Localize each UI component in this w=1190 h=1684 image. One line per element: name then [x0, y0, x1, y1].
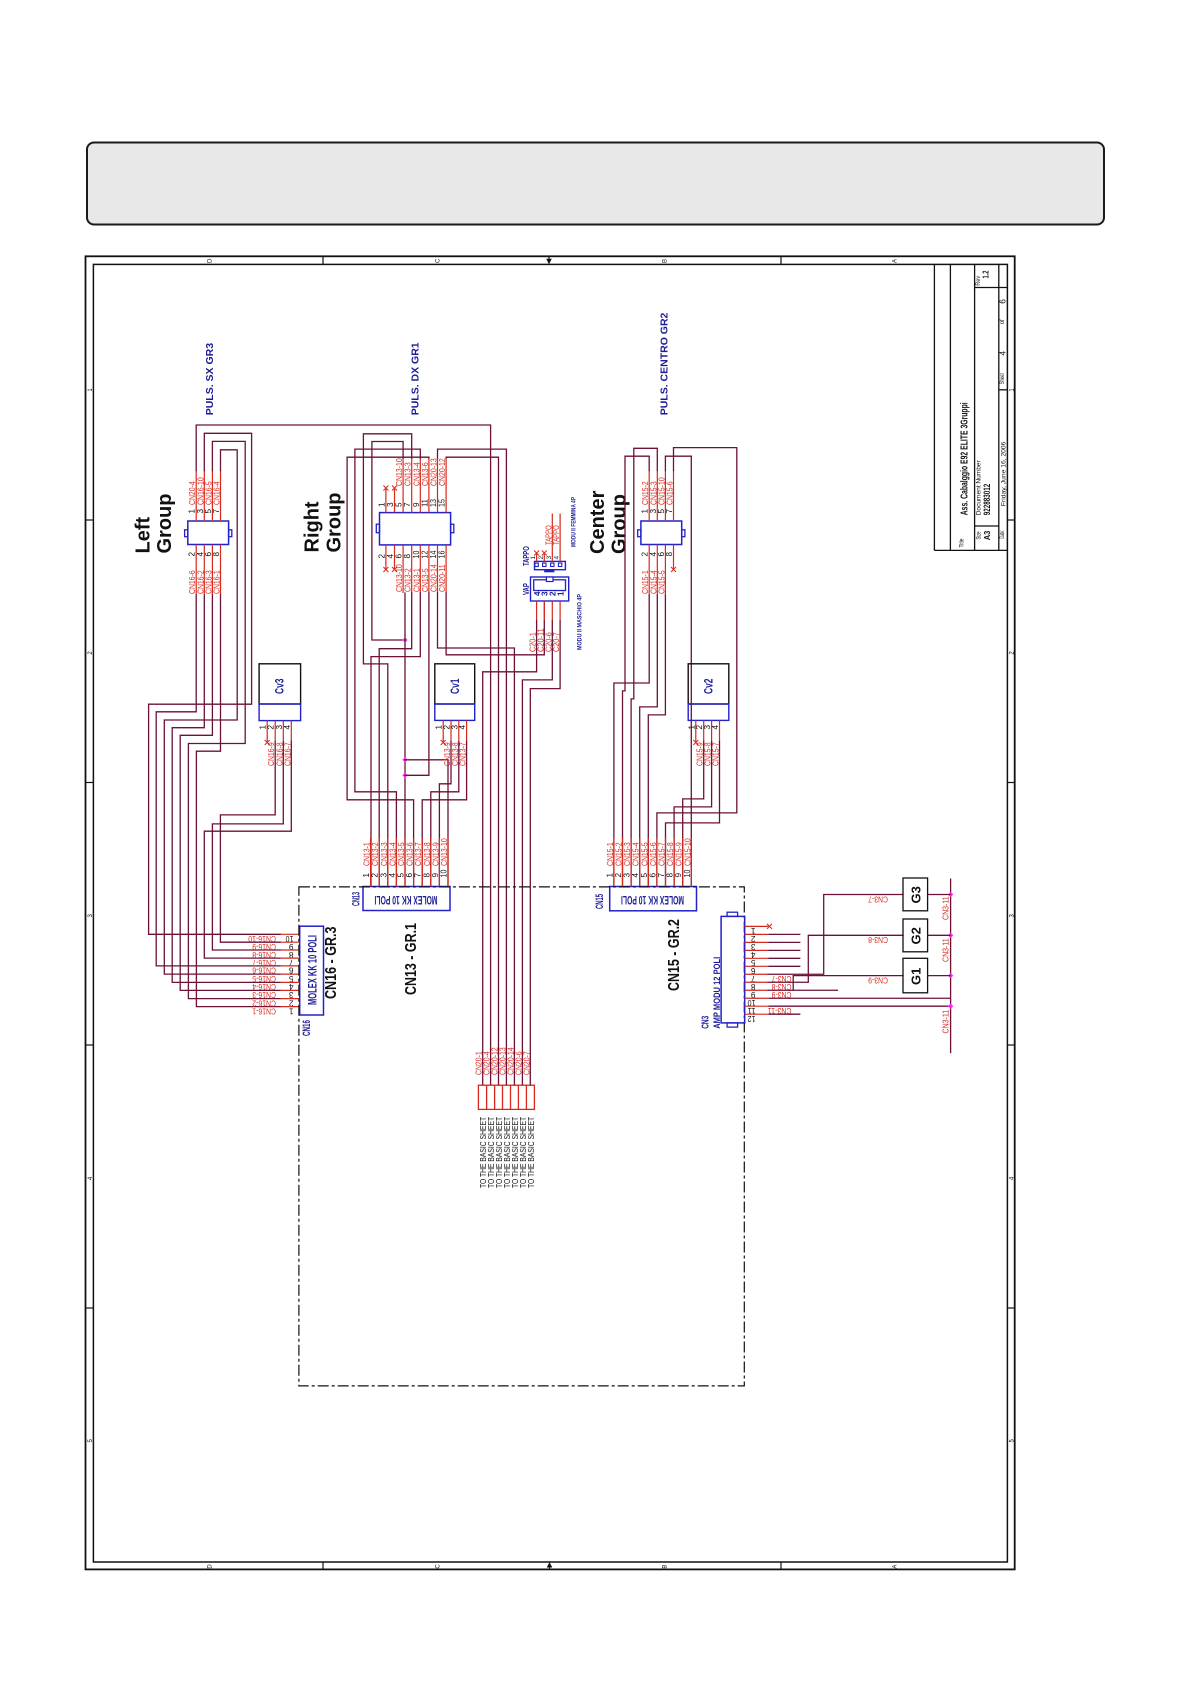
CN15 pin 6 stub [656, 838, 658, 887]
Cv1 pin 2 stub [450, 720, 452, 741]
frame zone tick left [86, 1044, 94, 1046]
CN3 pin 9 stub [745, 989, 769, 991]
center pin8 NC X [671, 567, 676, 572]
Cv2 pin1 no-connect X [693, 740, 698, 745]
frame zone tick right [1007, 1307, 1014, 1309]
svg-text:Ass. Cabalggio E92 ELITE 3Gru: Ass. Cabalggio E92 ELITE 3Gruppi [959, 402, 971, 515]
wire net CN13-8 (Cv1 pin3) [431, 742, 459, 887]
wire G1 right [928, 975, 951, 977]
Cv3 pin 3 stub [282, 721, 284, 742]
CN3 pin 4 stub [745, 949, 769, 951]
connector CN16 MOLEX KK 10 POLI [300, 926, 324, 1015]
svg-text:CN20-7: CN20-7 [522, 1051, 531, 1075]
connector VAP MODU II MASCHIO 4P [531, 577, 569, 601]
CN16 pin 6 stub [280, 965, 299, 967]
connector Left Group 8-pin [188, 521, 229, 545]
CN3 pin 2 stub [745, 933, 769, 935]
svg-text:CN16-4: CN16-4 [213, 481, 222, 505]
svg-text:1: 1 [530, 556, 537, 560]
frame zone tick bottom [322, 1562, 324, 1569]
left conn pin 4 stub [203, 545, 205, 596]
VAP pin 1 stub [559, 601, 561, 621]
CN13 pin 8 stub [430, 838, 432, 887]
svg-text:A: A [893, 259, 899, 263]
wire net CN13-7 (Cv1 pin4) [422, 742, 466, 887]
wire net CN20-7 (VAP pin1 to bundle) [530, 621, 560, 1086]
TAPPO pin2 NC X [542, 551, 547, 556]
svg-text:CN16-3: CN16-3 [252, 990, 276, 999]
connector Center Group 8-pin [641, 521, 682, 545]
Cv1 pin 1 stub [442, 720, 444, 741]
svg-text:CN16-9: CN16-9 [252, 942, 276, 951]
wire CN3 pin 2 [768, 933, 800, 935]
svg-text:CN16-2: CN16-2 [252, 998, 276, 1007]
Cv2 pin 1 stub [695, 720, 697, 741]
CN15 pin 9 stub [682, 838, 684, 887]
svg-text:8: 8 [212, 552, 221, 557]
frame zone tick right [1007, 1044, 1014, 1046]
svg-text:CN3-8: CN3-8 [868, 935, 888, 944]
svg-text:CN3-9: CN3-9 [868, 975, 888, 984]
wire net CN15-2 (center pin1) [623, 456, 650, 886]
wire net CN3-8 (pin8 to G2) [768, 935, 903, 982]
frame zone tick left [86, 1307, 94, 1309]
svg-text:6: 6 [998, 299, 1007, 304]
CN15 pin 4 stub [639, 838, 641, 887]
svg-text:MODU II FEMMINA 4P: MODU II FEMMINA 4P [571, 497, 578, 547]
frame zone tick right [1007, 519, 1014, 521]
svg-text:Friday, June 16, 2006: Friday, June 16, 2006 [1000, 441, 1007, 506]
wire CN3 pin12 [768, 1013, 800, 1015]
right conn pin 6 stub [402, 545, 404, 593]
TAPPO pin 1 stub [536, 554, 538, 561]
svg-text:Cv1: Cv1 [448, 678, 462, 694]
svg-text:Right: Right [302, 501, 324, 552]
VAP pin 2 stub [551, 601, 553, 621]
Cv2 pin 3 stub [711, 720, 713, 741]
svg-text:CN15 - GR.2: CN15 - GR.2 [666, 919, 683, 991]
svg-text:CN13: CN13 [351, 892, 363, 906]
wire net CN15-6 (center pin7) [657, 448, 737, 887]
title block [933, 264, 935, 550]
svg-text:Group: Group [154, 494, 176, 554]
svg-text:4: 4 [998, 351, 1007, 356]
svg-text:12: 12 [747, 1014, 755, 1023]
wire net CN3-7 (pin7 to G3) [768, 895, 903, 975]
junction CN3-11 G1 [948, 973, 953, 978]
svg-text:4: 4 [283, 725, 292, 730]
svg-text:CN15-5: CN15-5 [657, 570, 666, 594]
component G2 [903, 919, 928, 952]
CN3 pin 5 stub [745, 957, 769, 959]
svg-text:G1: G1 [909, 968, 924, 985]
svg-text:7: 7 [212, 509, 221, 514]
wire net CN16-8 (Cv3 pin3) [212, 742, 283, 951]
svg-text:1: 1 [289, 1006, 294, 1015]
TAPPO pin 2 stub [543, 554, 545, 561]
svg-text:1.2: 1.2 [982, 270, 991, 278]
svg-text:D: D [208, 1564, 214, 1569]
wire G2 right [928, 934, 951, 936]
svg-text:8: 8 [289, 950, 294, 959]
CN16 pin 8 stub [280, 949, 299, 951]
svg-text:PULS. CENTRO GR2: PULS. CENTRO GR2 [659, 312, 671, 415]
component Cv2 [688, 664, 729, 704]
CN15 pin 3 stub [630, 838, 632, 887]
svg-text:TAPPO: TAPPO [552, 525, 561, 545]
svg-text:CN16-1: CN16-1 [252, 1006, 276, 1015]
right conn pin 14 stub [437, 545, 439, 593]
frame zone tick left [86, 519, 94, 521]
right pin4 NC X [392, 567, 397, 572]
wire net CN15-10 (center pin5) [665, 456, 691, 886]
CN15 pin 5 stub [647, 838, 649, 887]
wire G3 right [928, 894, 951, 896]
CN16 pin 9 stub [280, 941, 299, 943]
wire net CN3-9 (pin9, G1 tap) [768, 989, 837, 991]
dashed board outline GR boxes [299, 887, 744, 1386]
svg-text:CN16-7: CN16-7 [252, 958, 276, 967]
wire net CN13-10 (right pin5 detour) [372, 442, 405, 641]
CN3 pin 3 stub [745, 941, 769, 943]
wire net CN20-12 (right pin15 to bundle) [446, 457, 498, 1085]
CN13 pin 4 stub [395, 838, 397, 887]
CN16 pin 2 stub [280, 998, 299, 1000]
wire CN3 pin10 [768, 997, 950, 999]
wire branch to CN13 pin10 [405, 760, 448, 887]
CN16 pin 5 stub [280, 973, 299, 975]
CN3 pin 7 stub [745, 973, 769, 975]
CN13 pin 6 stub [413, 838, 415, 887]
svg-text:B: B [663, 259, 669, 263]
Cv1 pin 3 stub [458, 720, 460, 741]
svg-text:8: 8 [665, 552, 674, 557]
schematic frame inner border [93, 264, 1007, 1562]
svg-text:Group: Group [609, 494, 631, 554]
left conn pin 1 stub [195, 471, 197, 522]
right pin3 NC X [392, 486, 397, 491]
junction CN13-10 branch [402, 757, 407, 762]
svg-text:Title: Title [960, 538, 966, 548]
Cv1 pin 4 stub [466, 720, 468, 741]
CN3 pin 11 stub [745, 1005, 769, 1007]
VAP pin 4 stub [536, 601, 538, 621]
connector CN15 MOLEX KK 10 POLI [610, 887, 697, 911]
CN16 pin 10 stub [280, 933, 299, 935]
left conn pin 3 stub [203, 471, 205, 522]
component G3 [903, 878, 928, 911]
wire net CN15-9 (Cv2 pin2) [683, 742, 704, 887]
CN15 pin 10 stub [690, 838, 692, 887]
svg-text:4: 4 [554, 556, 561, 560]
svg-text:CN13-10: CN13-10 [440, 838, 449, 866]
wire net CN16-10 (left pin3) [149, 433, 281, 934]
svg-text:CN20-11: CN20-11 [438, 564, 447, 592]
wire CN3 pin 4 [768, 949, 800, 951]
wire net CN13-9 (Cv1 pin2) [439, 742, 451, 887]
svg-text:CN3-11: CN3-11 [942, 938, 951, 962]
CN15 pin 8 stub [673, 838, 675, 887]
junction CN3-11 G2 [948, 933, 953, 938]
wire net CN16-7 (Cv3 pin4) [204, 742, 291, 959]
svg-text:Cv2: Cv2 [702, 678, 716, 694]
right conn pin 4 stub [394, 545, 396, 569]
right conn pin 12 stub [428, 545, 430, 593]
connector CN13 MOLEX KK 10 POLI [363, 887, 450, 911]
CN3 pin 10 stub [745, 997, 769, 999]
right conn pin 2 stub [385, 545, 387, 569]
svg-text:CN13 - GR.1: CN13 - GR.1 [403, 923, 420, 995]
svg-text:CN16-1: CN16-1 [213, 570, 222, 594]
VAP pin3 stub red [543, 601, 545, 621]
CN16 pin 4 stub [280, 981, 299, 983]
wire net CN16-3 (left pin6) [180, 595, 280, 990]
CN13 pin 10 stub [447, 838, 449, 887]
svg-text:TO THE BASIC SHEET: TO THE BASIC SHEET [527, 1117, 536, 1188]
right pin2 NC X [383, 567, 388, 572]
wire net CN13-1 (right pin10) [371, 593, 420, 887]
svg-text:Date:: Date: [1000, 530, 1006, 539]
svg-text:Center: Center [587, 490, 609, 554]
left conn pin 5 stub [211, 471, 213, 522]
svg-text:AMP MODU 12 POLI: AMP MODU 12 POLI [712, 957, 722, 1029]
svg-text:CN20-12: CN20-12 [438, 458, 447, 486]
svg-text:CN16 - GR.3: CN16 - GR.3 [323, 926, 340, 999]
CN13 pin 1 stub [370, 838, 372, 887]
center conn pin 7 stub [673, 471, 675, 522]
svg-text:16: 16 [438, 550, 447, 558]
grey header box [87, 143, 1104, 225]
svg-text:CN3: CN3 [701, 1016, 712, 1029]
svg-text:PULS. SX GR3: PULS. SX GR3 [204, 343, 216, 416]
frame center arrow bottom [547, 1562, 553, 1567]
svg-text:C: C [436, 1564, 442, 1569]
svg-text:of: of [1000, 319, 1006, 324]
svg-text:Group: Group [324, 493, 346, 553]
CN13 pin 5 stub [404, 838, 406, 887]
component Cv3 [259, 664, 301, 704]
connector CN3 AMP MODU 12 POLI [721, 916, 745, 1023]
right pin1 NC X [383, 486, 388, 491]
svg-text:MOLEX KK 10 POLI: MOLEX KK 10 POLI [621, 893, 684, 905]
svg-text:3: 3 [289, 990, 294, 999]
wire net CN13-10 vertical (right pin6 to CN13 pin5) [404, 593, 406, 887]
wire net CN15-4 (center pin4) [640, 595, 658, 887]
wire CN3 pin 3 [768, 941, 800, 943]
wire net CN16-2 (left pin4) [172, 595, 280, 982]
wire net CN15-5 (center pin6) [648, 595, 665, 887]
svg-text:VAP: VAP [522, 583, 531, 595]
wire net CN15-1 (center pin2) [614, 595, 649, 887]
right conn pin 8 stub [411, 545, 413, 593]
right conn pin 16 stub [445, 545, 447, 593]
wire net CN13-4 (right pin9) [355, 449, 420, 886]
Cv3 pin 4 stub [290, 721, 292, 742]
wire net CN16-6 (left pin2) [156, 595, 280, 966]
CN13 pin 9 stub [438, 838, 440, 887]
svg-text:10: 10 [683, 869, 692, 877]
svg-text:G2: G2 [909, 927, 924, 944]
wire net CN16-5 (left pin5) [188, 441, 280, 998]
CN3 pin 8 stub [745, 981, 769, 983]
center conn pin 3 stub [656, 471, 658, 522]
wire net CN20-1 (VAP pin4 to bundle) [483, 621, 537, 1086]
component G1 [903, 958, 928, 993]
schematic frame outer border [86, 256, 1015, 1569]
wire net CN3-11 (pin11) [768, 1005, 950, 1007]
svg-text:B: B [663, 1565, 669, 1569]
svg-text:2: 2 [538, 556, 545, 560]
svg-text:CN16-4: CN16-4 [252, 982, 276, 991]
junction CN13-10 [402, 637, 407, 642]
junction CN3-11 G3 [948, 892, 953, 897]
svg-text:4: 4 [458, 725, 467, 730]
TAPPO pin 4 stub [559, 514, 561, 562]
off-page connector boxes TO THE BASIC SHEET [478, 1085, 534, 1109]
svg-text:3: 3 [546, 556, 553, 560]
wire net CN15-7 (Cv2 pin4) [666, 742, 720, 887]
svg-text:4: 4 [711, 725, 720, 730]
frame zone tick top [780, 256, 782, 264]
left conn pin 8 stub [220, 545, 222, 596]
CN3 pin 6 stub [745, 965, 769, 967]
svg-text:Size: Size [976, 531, 982, 539]
CN15 pin 1 stub [613, 838, 615, 887]
svg-text:Left: Left [133, 517, 155, 554]
wire net CN15-8 (Cv2 pin3) [674, 742, 712, 887]
svg-text:TAPPO: TAPPO [522, 546, 531, 566]
CN3 pin 1 stub [745, 925, 769, 927]
svg-text:CN3-7: CN3-7 [868, 894, 888, 903]
right conn pin 10 stub [419, 545, 421, 593]
CN13 pin 3 stub [387, 838, 389, 887]
svg-text:CN3-11: CN3-11 [942, 896, 951, 920]
svg-text:A: A [893, 1565, 899, 1569]
CN15 pin 7 stub [665, 838, 667, 887]
wire net CN20-6 (VAP pin2 to bundle) [522, 621, 552, 1086]
wire net CN13-6 (right pin11) [347, 457, 429, 886]
connector Right Group 16-pin [380, 513, 451, 545]
svg-text:MOLEX KK 10 POLI: MOLEX KK 10 POLI [375, 893, 438, 905]
left conn pin 7 stub [220, 471, 222, 522]
CN15 pin 2 stub [622, 838, 624, 887]
CN13 pin 7 stub [421, 838, 423, 887]
svg-text:MODU II MASCHIO 4P: MODU II MASCHIO 4P [577, 594, 584, 650]
svg-text:15: 15 [438, 499, 447, 507]
Cv2 pin 4 stub [719, 720, 721, 741]
wire net CN13-2 (right pin8) [379, 593, 412, 887]
frame zone tick bottom [780, 1562, 782, 1569]
connector TAPPO MODU II FEMMINA 4P [535, 561, 566, 569]
svg-text:1: 1 [556, 591, 565, 596]
svg-text:D: D [208, 258, 214, 263]
junction CN13-5 joins [402, 773, 407, 778]
TAPPO pin 3 stub [551, 514, 553, 562]
wire net CN13-5 (right pin12) [405, 593, 429, 775]
svg-text:CN16-8: CN16-8 [252, 950, 276, 959]
frame center arrow top [546, 259, 552, 264]
wire net CN16-1 (left pin8) [196, 595, 280, 1007]
wire net CN20-11 (right pin16 to VAP pin3) [446, 593, 544, 655]
svg-text:922883012: 922883012 [982, 484, 992, 516]
frame zone tick top [322, 256, 324, 264]
frame zone tick left [86, 782, 94, 784]
svg-text:5: 5 [289, 974, 294, 983]
svg-text:6: 6 [289, 966, 294, 975]
CN3 pin 12 stub [745, 1013, 769, 1015]
svg-text:CN16-6: CN16-6 [252, 966, 276, 975]
svg-text:C: C [436, 258, 442, 263]
wire net CN16-9 (Cv3 pin2) [220, 742, 280, 943]
wire net CN16-4 (left pin7) [164, 450, 280, 974]
TAPPO pin1 NC X [534, 551, 539, 556]
svg-text:7: 7 [665, 509, 674, 514]
wire net CN15-3 (center pin3) [631, 448, 657, 886]
svg-text:MOLEX KK 10 POLI: MOLEX KK 10 POLI [308, 935, 320, 1005]
VAP pin 3 stub [543, 601, 545, 621]
svg-text:CN15-10: CN15-10 [683, 838, 692, 866]
svg-text:A3: A3 [983, 530, 992, 540]
Cv1 pin1 no-connect X [441, 740, 446, 745]
left conn pin 6 stub [211, 545, 213, 596]
CN3 pin1 NC X [767, 924, 772, 929]
svg-text:10: 10 [440, 869, 449, 877]
svg-text:G3: G3 [909, 886, 924, 903]
wire CN3 pin 5 [768, 957, 800, 959]
Cv3 pin1 no-connect X [265, 740, 270, 745]
svg-text:CN15: CN15 [594, 894, 606, 909]
wire net CN13-3 (right pin7) [363, 434, 411, 887]
svg-text:CN16-10: CN16-10 [248, 934, 276, 943]
left conn pin 2 stub [195, 545, 197, 596]
Cv2 pin 2 stub [703, 720, 705, 741]
svg-text:Sheet: Sheet [1000, 373, 1006, 384]
wire net CN20-13 (right pin13 to bundle) [438, 449, 507, 1085]
wire net CN3-11 vertical [950, 879, 952, 1054]
svg-text:CN15-6: CN15-6 [666, 481, 675, 505]
CN16 pin 7 stub [280, 957, 299, 959]
svg-text:CN16-5: CN16-5 [252, 974, 276, 983]
Cv3 pin 2 stub [274, 721, 276, 742]
junction CN3-11 pin11 [948, 1004, 953, 1009]
CN16 pin 1 stub [280, 1006, 299, 1008]
svg-text:Cv3: Cv3 [273, 678, 287, 694]
component Cv1 [435, 664, 475, 704]
wire net CN20-14 (right pin14 to bundle) [438, 593, 515, 1085]
CN16 pin 3 stub [280, 989, 299, 991]
wire net CN20-4 (left pin1 to sheet bundle) [196, 425, 490, 1085]
center conn pin 5 stub [664, 471, 666, 522]
Cv3 pin 1 stub [266, 721, 268, 742]
wire CN3 pin 6 [768, 965, 800, 967]
frame zone tick right [1007, 782, 1014, 784]
svg-text:CN3-11: CN3-11 [942, 1009, 951, 1033]
svg-text:PULS. DX GR1: PULS. DX GR1 [410, 342, 422, 415]
center conn pin 1 stub [648, 471, 650, 522]
svg-text:CN16: CN16 [301, 1020, 313, 1036]
CN13 pin 2 stub [378, 838, 380, 887]
